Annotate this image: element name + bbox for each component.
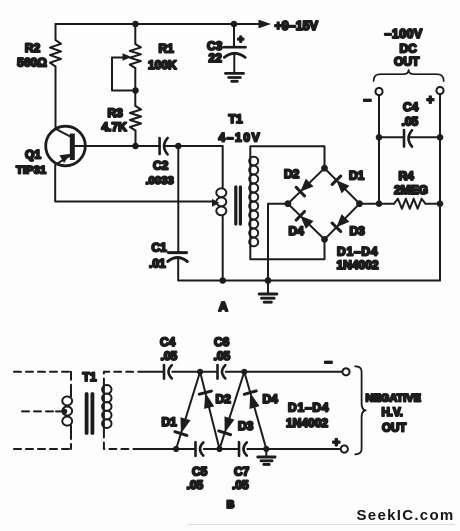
capacitor C1	[169, 251, 187, 254]
node supply arrow	[259, 20, 272, 29]
svg-text:A: A	[219, 299, 229, 314]
svg-text:R1: R1	[159, 42, 175, 56]
svg-text:D2: D2	[284, 167, 300, 181]
wire C3 top lead	[233, 24, 235, 47]
svg-text:.01: .01	[149, 257, 166, 271]
terminal plus output B	[341, 445, 348, 452]
node primary tap arrow	[212, 199, 219, 207]
wire C2 node to T1 primary	[178, 146, 222, 187]
wire R1 wiper loop	[112, 58, 132, 91]
ground main	[267, 281, 269, 293]
capacitor C5	[194, 442, 197, 456]
wire R1 top lead	[134, 24, 136, 44]
svg-text:Q1: Q1	[25, 148, 41, 162]
wire bridge right to R4	[360, 203, 395, 205]
svg-text:C4: C4	[160, 335, 176, 349]
wire diode line 3	[220, 372, 245, 449]
svg-text:2MEG: 2MEG	[394, 183, 428, 197]
node top rail junction 2	[241, 369, 247, 375]
resistor R4	[394, 199, 426, 209]
diode D1	[332, 176, 341, 184]
terminal plus output A	[436, 87, 443, 94]
svg-text:R2: R2	[25, 41, 41, 55]
ground under C3	[226, 73, 244, 81]
svg-text:C2: C2	[153, 159, 169, 173]
node R1 bottom junction	[132, 87, 139, 94]
svg-text:4–10V: 4–10V	[219, 131, 262, 145]
node R4 right rail junction	[437, 200, 444, 207]
node bridge right	[356, 200, 363, 207]
svg-text:+: +	[427, 92, 435, 107]
node bottom rail junction 2	[216, 446, 222, 452]
wire C3 to ground	[233, 54, 235, 73]
terminal minus output A	[375, 88, 382, 95]
svg-text:H.V.: H.V.	[382, 407, 403, 419]
wire diode line 1	[176, 372, 200, 449]
svg-text:+: +	[238, 34, 244, 46]
node top rail junction 1	[197, 369, 203, 375]
wire dashed primary center tap	[22, 410, 56, 412]
wire secondary bottom to bridge	[250, 239, 324, 259]
svg-text:1N4002: 1N4002	[286, 416, 328, 430]
node bridge left	[285, 200, 292, 207]
capacitor C4 output	[403, 130, 406, 147]
wire C2 leads	[136, 145, 179, 147]
svg-text:D3: D3	[238, 419, 254, 433]
node R4 left rail junction	[376, 200, 383, 207]
brace output B	[355, 366, 365, 454]
diode D3B	[219, 431, 231, 435]
transformer T1 core	[236, 187, 241, 224]
wire top supply rail	[56, 23, 260, 25]
wire right output rail	[439, 94, 441, 280]
svg-text:D1: D1	[162, 415, 178, 429]
ground B	[265, 449, 267, 456]
svg-text:–: –	[364, 91, 372, 107]
capacitor C3	[224, 46, 246, 49]
svg-text:1N4002: 1N4002	[337, 258, 379, 272]
svg-text:C5: C5	[192, 465, 208, 479]
wire bottom rail B	[141, 448, 341, 450]
node C3 top junction	[231, 21, 238, 28]
svg-text:SeekIC.com: SeekIC.com	[357, 507, 455, 524]
svg-text:B: B	[227, 499, 235, 511]
svg-text:R4: R4	[399, 169, 415, 183]
wire bridge left node to ground	[268, 204, 288, 281]
wire R4 right lead	[426, 203, 441, 205]
diode D4	[296, 212, 304, 221]
capacitor C4B	[163, 365, 166, 379]
wire dashed primary top	[14, 371, 71, 373]
node bridge top	[321, 165, 328, 172]
svg-text:D4: D4	[289, 224, 305, 238]
svg-text:.05: .05	[187, 478, 204, 492]
svg-text:.0033: .0033	[146, 175, 174, 187]
svg-text:.05: .05	[402, 115, 419, 129]
brace -100V DC OUT	[374, 70, 444, 81]
wire dashed primary bottom	[14, 448, 71, 450]
svg-text:4.7K: 4.7K	[102, 120, 128, 134]
transformer T1 secondary winding	[250, 146, 324, 168]
wire diode line 4	[244, 372, 266, 449]
node C2 right junction	[175, 143, 182, 150]
svg-text:+: +	[333, 435, 341, 450]
wire R2 bottom lead to Q1	[55, 67, 57, 129]
svg-text:R3: R3	[108, 106, 124, 120]
node bottom rail junction 1	[173, 446, 179, 452]
svg-text:+9–15V: +9–15V	[275, 19, 319, 33]
node ground junction	[265, 277, 272, 284]
diode D3	[332, 223, 341, 231]
node primary bottom junction	[219, 277, 226, 284]
resistor R1 potentiometer	[130, 44, 141, 68]
transformer T1 primary winding	[216, 188, 226, 197]
wire R3 bottom lead	[135, 131, 137, 147]
wire left output rail	[378, 95, 380, 204]
svg-text:–100V: –100V	[385, 27, 423, 41]
wire Q1 emitter to primary tap	[55, 201, 212, 203]
svg-text:T1: T1	[83, 370, 97, 384]
svg-text:22: 22	[209, 51, 223, 65]
node bridge bottom	[321, 236, 328, 243]
svg-text:D1–D4: D1–D4	[288, 401, 329, 415]
node primary tap dot	[62, 409, 68, 415]
node R1 top junction	[132, 21, 139, 28]
node R1 wiper arrow	[123, 53, 132, 61]
svg-text:560Ω: 560Ω	[17, 56, 47, 70]
diode D1B	[175, 432, 187, 436]
svg-text:OUT: OUT	[394, 55, 420, 69]
wire C1 top lead	[177, 146, 179, 252]
svg-text:DC: DC	[400, 42, 418, 56]
svg-text:.05: .05	[214, 349, 231, 363]
node Q1 collector junction	[132, 143, 139, 150]
transformer T1B secondary winding	[103, 386, 105, 431]
diode D2	[296, 187, 304, 196]
wire primary bottom lead	[222, 216, 224, 281]
capacitor C2	[158, 138, 161, 154]
svg-text:C6: C6	[214, 335, 230, 349]
wire R2 top lead	[55, 24, 57, 40]
diode D2B	[199, 391, 211, 394]
svg-text:TIP31: TIP31	[16, 165, 46, 177]
resistor R3	[130, 106, 141, 131]
svg-text:C4: C4	[403, 100, 419, 114]
svg-text:D1–D4: D1–D4	[337, 245, 378, 259]
wire dashed secondary leads	[104, 372, 141, 386]
transformer T1B core	[87, 394, 93, 433]
svg-text:D2: D2	[216, 392, 232, 406]
wire R1 to R3	[134, 68, 136, 106]
transformer T1B primary winding	[70, 388, 72, 431]
capacitor C6	[216, 365, 219, 379]
svg-text:D3: D3	[350, 224, 366, 238]
diode D4B	[244, 391, 256, 394]
wire bridge edges	[288, 168, 360, 239]
wire diode line 2	[200, 372, 219, 449]
svg-text:.05: .05	[232, 478, 249, 492]
scan artifact line	[188, 524, 455, 526]
svg-text:D4: D4	[263, 392, 279, 406]
svg-text:100K: 100K	[148, 58, 177, 72]
svg-text:NEGATIVE: NEGATIVE	[366, 393, 421, 405]
resistor R2	[50, 40, 61, 67]
node ground junction B	[263, 446, 269, 452]
svg-text:T1: T1	[229, 112, 243, 126]
svg-text:C7: C7	[234, 465, 250, 479]
svg-text:D1: D1	[349, 169, 365, 183]
wire C1 bottom lead / bottom rail	[178, 258, 440, 281]
capacitor C7	[238, 442, 241, 456]
svg-text:–: –	[325, 353, 333, 369]
wire top rail B	[141, 371, 342, 373]
svg-text:.05: .05	[161, 349, 178, 363]
transistor Q1	[46, 126, 86, 166]
terminal minus output B	[342, 368, 349, 375]
svg-text:C1: C1	[152, 241, 168, 255]
svg-text:OUT: OUT	[382, 423, 406, 435]
